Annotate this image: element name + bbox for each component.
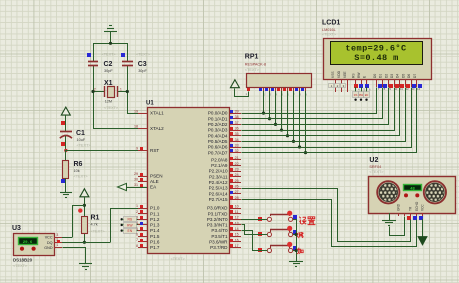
svg-text:11: 11 [400,87,403,91]
svg-text:2: 2 [94,87,96,91]
svg-text:<TEXT>: <TEXT> [77,144,92,148]
svg-text:D6: D6 [407,74,411,78]
svg-text:P1.2: P1.2 [150,217,160,222]
svg-text:3: 3 [56,233,58,237]
svg-text:VCC: VCC [421,204,425,211]
svg-text:VCC: VCC [45,236,53,240]
svg-text:17: 17 [235,244,239,248]
svg-text:VDD: VDD [337,70,341,78]
svg-text:31: 31 [134,183,138,187]
svg-text:21: 21 [235,156,239,160]
svg-text:39: 39 [235,110,239,114]
svg-text:RW: RW [127,223,133,227]
svg-text:7: 7 [136,238,138,242]
svg-text:12M: 12M [105,100,112,104]
svg-text:P2.2/A10: P2.2/A10 [209,169,228,174]
svg-text:PSEN: PSEN [150,174,163,179]
svg-text:35: 35 [235,132,239,136]
svg-text:<TEXT>: <TEXT> [171,257,186,261]
svg-text:P2.7/A15: P2.7/A15 [209,197,228,202]
svg-text:P1.0: P1.0 [150,206,160,211]
svg-text:P3.2/INT0: P3.2/INT0 [207,217,228,222]
svg-text:P2.1/A9: P2.1/A9 [211,163,228,168]
svg-text:P3.5/T1: P3.5/T1 [211,234,228,239]
svg-text:29: 29 [134,172,138,176]
svg-text:X1: X1 [104,80,113,87]
svg-text:18: 18 [134,125,138,129]
svg-text:U1: U1 [146,101,154,107]
svg-text:32: 32 [235,149,239,153]
svg-text:12: 12 [406,87,410,91]
svg-text:RS: RS [354,93,358,97]
svg-text:13: 13 [235,221,239,225]
svg-text:14: 14 [235,227,239,231]
svg-text:ECHO: ECHO [415,201,419,211]
svg-text:11: 11 [235,210,239,214]
svg-text:RST: RST [150,148,159,153]
svg-text:P3.1/TXD: P3.1/TXD [208,211,229,216]
svg-text:C2: C2 [104,61,113,68]
svg-text:GND: GND [44,246,53,250]
svg-text:P2.5/A13: P2.5/A13 [209,186,228,191]
svg-text:P2.4/A12: P2.4/A12 [209,180,228,185]
svg-text:26: 26 [235,184,239,188]
svg-text:27: 27 [235,190,239,194]
svg-text:P3.0/RXD: P3.0/RXD [207,206,228,211]
svg-text:24: 24 [235,173,239,177]
svg-text:U3: U3 [12,225,21,232]
svg-text:D3: D3 [390,74,394,78]
svg-text:RP1: RP1 [245,54,259,61]
svg-text:48: 48 [410,188,415,192]
svg-text:EN: EN [365,93,369,97]
svg-text:C3: C3 [138,61,147,68]
svg-text:RS: RS [352,73,356,78]
svg-text:P1.3: P1.3 [150,223,160,228]
svg-text:P3.6/WR: P3.6/WR [209,240,228,245]
svg-text:<TEXT>: <TEXT> [136,53,151,57]
svg-text:P0.5/AD5: P0.5/AD5 [208,139,228,144]
svg-text:P0.6/AD6: P0.6/AD6 [208,145,228,150]
svg-text:1: 1 [120,87,122,91]
svg-text:P1.4: P1.4 [150,228,160,233]
svg-text:P0.0/AD0: P0.0/AD0 [208,111,228,116]
svg-text:1: 1 [136,204,138,208]
svg-text:P3.4/T0: P3.4/T0 [211,228,228,233]
svg-text:10k: 10k [74,169,80,173]
svg-text:P1.6: P1.6 [150,240,160,245]
svg-text:25: 25 [235,179,239,183]
svg-text:30pF: 30pF [138,69,147,73]
svg-text:RW: RW [357,72,361,78]
svg-text:RS: RS [127,218,132,222]
svg-text:<TEXT>: <TEXT> [245,68,260,72]
svg-text:19: 19 [134,109,138,113]
svg-text:<TEXT>: <TEXT> [91,230,106,234]
svg-text:9: 9 [136,147,138,151]
svg-text:15: 15 [235,233,239,237]
svg-text:29.6: 29.6 [23,241,33,245]
svg-text:34: 34 [235,138,239,142]
svg-text:<TEXT>: <TEXT> [104,106,119,110]
svg-text:22: 22 [235,162,239,166]
svg-text:DS18B20: DS18B20 [13,258,33,263]
svg-text:P1.7: P1.7 [150,245,160,250]
svg-text:R6: R6 [74,161,83,168]
svg-text:LM016L: LM016L [322,28,336,32]
svg-text:12: 12 [235,216,239,220]
svg-text:P0.1/AD1: P0.1/AD1 [208,116,228,121]
svg-text:RESPACK-8: RESPACK-8 [245,62,266,66]
svg-text:23: 23 [235,168,239,172]
svg-text:LCD1: LCD1 [322,20,340,27]
svg-text:P0.4/AD4: P0.4/AD4 [208,133,228,138]
svg-text:U2: U2 [369,157,378,164]
svg-text:36: 36 [235,126,239,130]
svg-text:10: 10 [235,204,239,208]
svg-text:8: 8 [136,244,138,248]
svg-text:P2.6/A14: P2.6/A14 [209,191,228,196]
svg-text:38: 38 [235,115,239,119]
svg-text:D1: D1 [379,74,383,78]
svg-text:1: 1 [56,243,58,247]
svg-text:DQ: DQ [47,241,53,245]
svg-text:EN: EN [127,229,132,233]
svg-text:30pF: 30pF [104,69,113,73]
svg-text:<TEXT>: <TEXT> [322,33,337,37]
svg-text:14: 14 [417,87,421,91]
svg-text:SRF04: SRF04 [369,165,381,169]
svg-text:VEE: VEE [343,71,347,78]
svg-text:10uF: 10uF [77,138,86,142]
svg-text:P3.3/INT1: P3.3/INT1 [207,223,228,228]
svg-text:XTAL2: XTAL2 [150,126,164,131]
svg-text:XTAL1: XTAL1 [150,111,164,116]
svg-text:P1.5: P1.5 [150,234,160,239]
svg-text:4.7k: 4.7k [91,223,98,227]
svg-text:RW: RW [359,93,364,97]
svg-text:37: 37 [235,121,239,125]
svg-text:TR: TR [409,206,413,211]
svg-text:P2.0/A8: P2.0/A8 [211,157,228,162]
svg-text:P3.7/RD: P3.7/RD [210,245,228,250]
svg-text:<TEXT>: <TEXT> [102,53,117,57]
svg-text:EA: EA [150,185,157,190]
svg-text:2: 2 [136,210,138,214]
svg-text:P1.1: P1.1 [150,211,160,216]
svg-text:<TEXT>: <TEXT> [13,264,28,268]
svg-text:C1: C1 [76,130,85,137]
svg-text:30: 30 [134,178,138,182]
svg-text:ALE: ALE [150,179,159,184]
svg-text:GND: GND [397,203,401,211]
svg-text:P0.2/AD2: P0.2/AD2 [208,122,228,127]
svg-text:D5: D5 [401,74,405,78]
svg-text:R1: R1 [91,215,100,222]
svg-text:16: 16 [235,238,239,242]
svg-text:VSS: VSS [331,71,335,78]
svg-text:P0.7/AD7: P0.7/AD7 [208,150,228,155]
svg-text:28: 28 [235,196,239,200]
svg-text:<TEXT>: <TEXT> [369,170,384,174]
svg-text:D7: D7 [413,74,417,78]
svg-text:P2.3/A11: P2.3/A11 [209,174,228,179]
svg-text:D2: D2 [384,74,388,78]
svg-text:<TEXT>: <TEXT> [74,175,89,179]
svg-text:D0: D0 [373,74,377,78]
svg-text:P0.3/AD3: P0.3/AD3 [208,128,228,133]
svg-text:S=0.48 m: S=0.48 m [354,53,398,63]
svg-text:33: 33 [235,143,239,147]
svg-text:temp=29.6°C: temp=29.6°C [345,44,406,54]
svg-text:D4: D4 [396,74,400,78]
